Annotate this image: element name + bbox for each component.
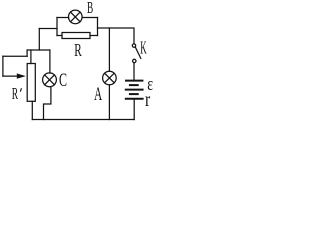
svg-text:B: B bbox=[87, 0, 93, 17]
prime tick of R' bbox=[20, 88, 21, 92]
lamp C bbox=[43, 73, 57, 87]
wire lamp C bottom lead with jog bbox=[44, 87, 51, 120]
wire left vertical bbox=[2, 56, 4, 76]
battery cells bbox=[126, 81, 143, 99]
wire left exit of parallel block bbox=[39, 28, 57, 30]
wire resistor R left lead bbox=[57, 35, 62, 37]
resistor R body bbox=[62, 33, 90, 39]
rheostat R' body bbox=[27, 64, 35, 102]
lamp A bbox=[103, 71, 117, 85]
svg-text:A: A bbox=[94, 85, 103, 105]
wire bottom main bbox=[32, 119, 134, 121]
wire top main to switch corner bbox=[98, 28, 135, 44]
wire rheostat top lead bbox=[30, 50, 32, 64]
wire left drop bbox=[38, 29, 40, 51]
wire switch to battery bbox=[133, 63, 135, 80]
svg-text:R: R bbox=[74, 40, 82, 60]
wire rheostat wiper lead bbox=[3, 75, 19, 77]
lamp B bbox=[69, 10, 83, 24]
wire battery bottom lead bbox=[133, 100, 135, 120]
wire rheostat bottom lead bbox=[31, 101, 33, 119]
wire lamp C top lead bbox=[49, 50, 51, 73]
node vertical left of B/R parallel block bbox=[56, 18, 58, 36]
wire lamp B right lead bbox=[82, 17, 97, 19]
switch K top contact bbox=[132, 44, 135, 47]
switch K bottom contact bbox=[133, 59, 136, 62]
switch K blade bbox=[135, 47, 140, 58]
wire step vertical bbox=[26, 50, 28, 56]
wire node horizontal bbox=[27, 49, 50, 51]
node vertical right of B/R parallel block bbox=[97, 18, 99, 36]
svg-text:R: R bbox=[12, 84, 18, 103]
rheostat wiper arrowhead bbox=[17, 73, 26, 78]
wire resistor R right lead bbox=[90, 35, 98, 37]
svg-text:r: r bbox=[145, 89, 150, 111]
wire lamp B left lead bbox=[57, 17, 69, 19]
wire lamp A bottom lead bbox=[108, 85, 110, 120]
wire lamp A top lead bbox=[108, 28, 110, 71]
svg-text:C: C bbox=[59, 71, 67, 91]
svg-text:K: K bbox=[140, 37, 147, 57]
wire left horizontal bbox=[3, 55, 27, 57]
